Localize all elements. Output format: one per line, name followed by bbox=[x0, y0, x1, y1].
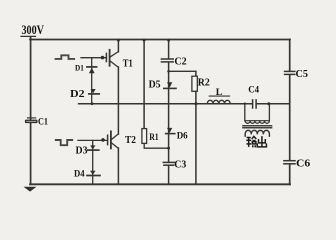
svg-text:C3: C3 bbox=[174, 160, 186, 171]
svg-text:R2: R2 bbox=[198, 77, 210, 88]
svg-text:T2: T2 bbox=[125, 135, 136, 146]
svg-text:C6: C6 bbox=[296, 158, 310, 169]
svg-text:R1: R1 bbox=[149, 133, 159, 143]
svg-text:D5: D5 bbox=[149, 80, 161, 91]
svg-text:D6: D6 bbox=[177, 131, 188, 141]
svg-text:C1: C1 bbox=[38, 116, 48, 126]
svg-text:D1: D1 bbox=[75, 63, 84, 73]
svg-text:D2: D2 bbox=[70, 88, 85, 100]
svg-text:C2: C2 bbox=[174, 57, 186, 68]
svg-text:C4: C4 bbox=[248, 84, 259, 94]
svg-text:L: L bbox=[216, 87, 223, 98]
svg-text:T1: T1 bbox=[123, 58, 133, 69]
svg-text:D3: D3 bbox=[76, 146, 88, 157]
svg-text:C5: C5 bbox=[296, 69, 309, 80]
svg-text:D4: D4 bbox=[74, 170, 85, 180]
svg-text:300V: 300V bbox=[22, 22, 45, 37]
